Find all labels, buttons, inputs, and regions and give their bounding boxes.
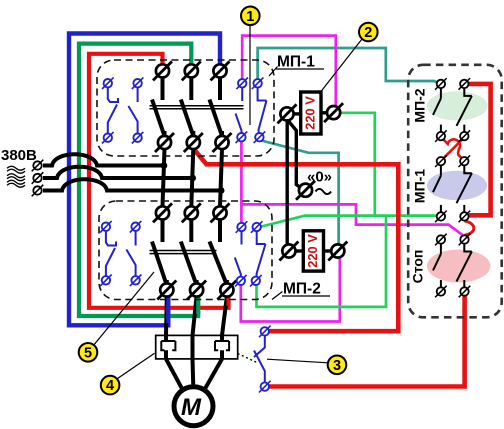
svg-text:МП-1: МП-1 bbox=[277, 54, 315, 71]
svg-text:220 V: 220 V bbox=[303, 96, 318, 130]
svg-text:МП-2: МП-2 bbox=[412, 88, 428, 122]
svg-text:МП-1: МП-1 bbox=[412, 169, 428, 203]
svg-text:380В: 380В bbox=[1, 147, 37, 164]
svg-text:Стоп: Стоп bbox=[410, 250, 426, 284]
svg-text:4: 4 bbox=[106, 378, 114, 394]
svg-text:МП-2: МП-2 bbox=[283, 281, 321, 298]
svg-text:220 V: 220 V bbox=[305, 234, 320, 268]
svg-text:«0»: «0» bbox=[307, 169, 332, 186]
svg-text:5: 5 bbox=[84, 345, 92, 361]
svg-text:3: 3 bbox=[333, 358, 341, 374]
svg-text:1: 1 bbox=[246, 9, 254, 25]
svg-text:2: 2 bbox=[364, 25, 372, 41]
svg-text:М: М bbox=[181, 394, 202, 421]
